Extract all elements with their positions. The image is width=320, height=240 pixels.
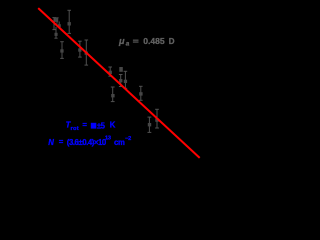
marker 5 xyxy=(85,52,88,55)
annotation: rotational temperature (blue) xyxy=(66,121,116,132)
svg-text:13: 13 xyxy=(105,135,111,141)
marker 6 xyxy=(109,71,112,74)
point 13 error bar xyxy=(155,109,159,128)
point 9 error bar xyxy=(124,71,128,88)
svg-text:N: N xyxy=(48,138,54,147)
marker 9 xyxy=(124,80,127,83)
marker 3 xyxy=(60,49,63,52)
svg-text:a: a xyxy=(126,41,130,48)
marker 11 xyxy=(139,92,142,95)
svg-text:±5: ±5 xyxy=(97,121,106,130)
point cluster 1 bar d xyxy=(58,22,60,29)
marker 7 xyxy=(119,67,123,72)
svg-text:0.485: 0.485 xyxy=(143,36,165,46)
svg-text:rot: rot xyxy=(71,126,79,132)
marker 1d xyxy=(58,24,61,27)
data points: square markers xyxy=(55,18,159,127)
marker 12 xyxy=(148,123,151,126)
marker 1e xyxy=(55,33,58,36)
marker 4 xyxy=(78,48,81,51)
svg-text:D: D xyxy=(169,37,175,46)
point cluster 1 bar a xyxy=(52,18,56,30)
svg-text:(3.6±0.4)×10: (3.6±0.4)×10 xyxy=(67,138,107,147)
svg-text:μ: μ xyxy=(118,36,125,46)
point 6 error bar xyxy=(108,67,112,76)
point 12 error bar xyxy=(148,117,152,132)
fit line (red) xyxy=(38,8,200,158)
point 10 error bar xyxy=(111,87,115,102)
point 11 error bar xyxy=(139,86,143,100)
svg-text:=: = xyxy=(59,138,64,147)
marker 1a (overlapping pair, solid blob) xyxy=(55,18,59,22)
point cluster 1 bar b xyxy=(55,18,58,24)
svg-text:−2: −2 xyxy=(125,136,131,142)
point 8 error bar xyxy=(119,75,123,87)
annotation: dipole moment (gray) xyxy=(118,36,175,48)
point 2 error bar xyxy=(67,10,71,33)
data points: error bars xyxy=(52,10,158,132)
svg-text:K: K xyxy=(110,121,116,130)
svg-text:cm: cm xyxy=(114,138,125,147)
marker 10 xyxy=(111,94,114,97)
annotation: column density (blue) xyxy=(48,135,131,147)
svg-text:=: = xyxy=(82,121,87,130)
marker 13 xyxy=(155,118,158,121)
point 4 error bar xyxy=(78,41,82,57)
point 3 error bar xyxy=(60,42,64,59)
point 5 error bar xyxy=(85,40,89,65)
point cluster 1 bar e xyxy=(54,27,57,38)
marker 8 xyxy=(119,79,122,82)
marker 2 xyxy=(68,22,71,25)
